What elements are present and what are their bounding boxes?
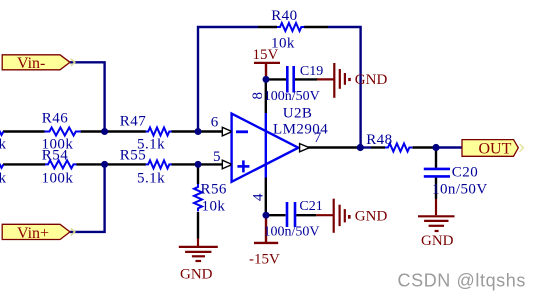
svg-text:GND: GND bbox=[355, 209, 388, 225]
svg-text:R46: R46 bbox=[42, 110, 68, 126]
junction node at C20 bbox=[432, 144, 439, 151]
port Vin+ bbox=[2, 224, 75, 242]
wire feedback left + top (navy) bbox=[198, 27, 258, 132]
svg-text:Vin+: Vin+ bbox=[17, 225, 49, 242]
power 15V bbox=[253, 47, 281, 79]
wire to OUT port (navy) bbox=[433, 146, 462, 148]
svg-text:C21: C21 bbox=[299, 199, 322, 214]
wire Vin- vertical (navy) bbox=[70, 62, 105, 131]
wire output (black) bbox=[308, 146, 357, 148]
svg-text:100k: 100k bbox=[42, 171, 74, 187]
resistor R48 bbox=[366, 132, 433, 152]
junction node on net2 at R56 bbox=[195, 161, 202, 168]
junction node at 15V/C19 bbox=[263, 76, 270, 83]
svg-text:R54: R54 bbox=[42, 148, 68, 164]
resistor R55 bbox=[120, 148, 172, 187]
svg-text:R48: R48 bbox=[366, 132, 392, 148]
wire pin8 (black) bbox=[265, 81, 267, 113]
svg-text:5: 5 bbox=[213, 149, 221, 165]
wire net1 (pin6 row, black segments) bbox=[3, 130, 223, 132]
op-amp U2B bbox=[232, 106, 329, 182]
capacitor C21 bbox=[264, 199, 323, 239]
pin 6 arrow bbox=[222, 127, 230, 136]
ground (down) for R56 bbox=[179, 239, 218, 262]
svg-text:0k: 0k bbox=[0, 170, 7, 186]
svg-text:GND: GND bbox=[421, 233, 454, 249]
ground (side) for C19 bbox=[317, 63, 350, 98]
svg-text:GND: GND bbox=[180, 267, 213, 283]
junction node on net1 at feedback bbox=[195, 128, 202, 135]
wire pin4 (black) bbox=[265, 178, 267, 215]
svg-text:OUT: OUT bbox=[479, 140, 512, 157]
svg-text:10n/50V: 10n/50V bbox=[432, 182, 488, 198]
svg-text:C20: C20 bbox=[452, 165, 478, 181]
resistor R54 bbox=[42, 148, 77, 187]
resistor R56 bbox=[194, 166, 227, 239]
pin 7 arrow bbox=[300, 144, 308, 152]
svg-text:4: 4 bbox=[250, 193, 266, 201]
junction node at -15V/C21 bbox=[263, 212, 270, 219]
svg-text:U2B: U2B bbox=[283, 106, 313, 122]
resistor R40 bbox=[258, 8, 328, 52]
svg-text:CSDN @ltqshs: CSDN @ltqshs bbox=[398, 270, 527, 290]
svg-text:-15V: -15V bbox=[249, 251, 280, 267]
junction node on net2 at Vin+ bbox=[101, 161, 108, 168]
wire Vin+ vertical (navy) bbox=[70, 164, 105, 232]
svg-text:10k: 10k bbox=[202, 198, 226, 214]
junction node at output feedback bbox=[357, 144, 364, 151]
resistor R53 partial zigzag at left edge row2 bbox=[0, 161, 4, 168]
capacitor C19 bbox=[264, 64, 323, 104]
svg-text:R40: R40 bbox=[271, 8, 297, 24]
svg-text:R56: R56 bbox=[201, 181, 227, 197]
port Vin- bbox=[2, 55, 75, 72]
svg-text:100n/50V: 100n/50V bbox=[264, 89, 320, 104]
junction node on net1 at Vin- bbox=[101, 128, 108, 135]
svg-text:Vin-: Vin- bbox=[17, 55, 45, 72]
svg-text:C19: C19 bbox=[300, 64, 323, 79]
resistor R46 bbox=[42, 110, 81, 152]
pin 5 arrow bbox=[222, 160, 230, 169]
resistor R45 partial zigzag at left edge row1 bbox=[0, 128, 4, 135]
svg-text:6: 6 bbox=[211, 115, 219, 131]
capacitor C20 bbox=[424, 149, 488, 199]
ground (down) for C20 bbox=[418, 199, 455, 231]
ground (side) for C21 bbox=[316, 199, 349, 233]
svg-text:GND: GND bbox=[355, 72, 388, 88]
resistor R47 bbox=[120, 114, 172, 153]
wire net2 (pin5 row, black segments) bbox=[3, 163, 223, 165]
port OUT bbox=[462, 140, 523, 158]
wire feedback right + down (navy) bbox=[328, 27, 361, 148]
svg-text:5.1k: 5.1k bbox=[137, 171, 165, 187]
svg-text:100n/50V: 100n/50V bbox=[264, 225, 320, 240]
wire output (navy mid) bbox=[357, 146, 371, 148]
svg-text:15V: 15V bbox=[253, 47, 279, 63]
svg-text:R55: R55 bbox=[120, 148, 146, 164]
svg-text:0k: 0k bbox=[0, 137, 7, 153]
svg-text:7: 7 bbox=[314, 130, 322, 146]
power -15V bbox=[249, 217, 280, 268]
svg-text:R47: R47 bbox=[120, 114, 146, 130]
